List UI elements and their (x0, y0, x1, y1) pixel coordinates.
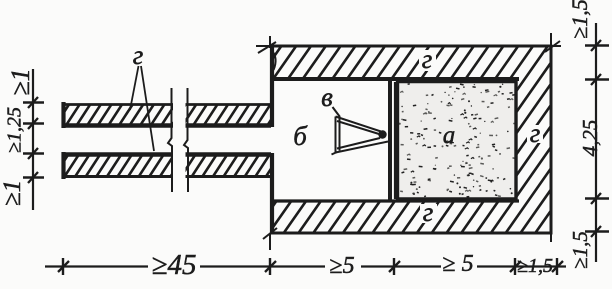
svg-text:≥45: ≥45 (152, 249, 197, 281)
svg-text:≥1,5: ≥1,5 (517, 255, 553, 277)
svg-text:г: г (422, 44, 433, 74)
svg-text:≥1,5: ≥1,5 (568, 231, 592, 269)
svg-text:4,25: 4,25 (578, 120, 602, 157)
svg-text:г: г (133, 40, 144, 70)
svg-text:б: б (293, 121, 308, 151)
svg-text:≥1,25: ≥1,25 (4, 107, 26, 153)
svg-text:а: а (443, 122, 456, 149)
svg-text:≥1: ≥1 (6, 68, 35, 95)
svg-text:г: г (423, 197, 434, 227)
svg-text:г: г (530, 118, 541, 148)
svg-text:≥5: ≥5 (329, 253, 354, 279)
svg-text:≥1: ≥1 (0, 180, 26, 206)
svg-text:≥ 5: ≥ 5 (442, 251, 473, 277)
svg-text:≥1,5: ≥1,5 (567, 0, 592, 39)
svg-text:в: в (321, 82, 333, 112)
